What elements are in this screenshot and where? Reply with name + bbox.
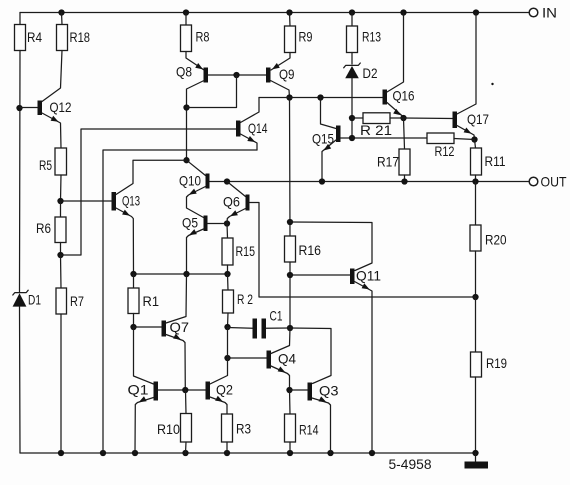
wire: Q2 collector [210,358,228,384]
wire: bus from Q14 collector to Q16 base [259,97,383,99]
svg-text:R5: R5 [39,157,52,173]
wire: node to R19 [475,297,477,352]
node junction ground rail end [472,450,478,456]
wire: Q14 collector riser [241,98,260,123]
svg-text:Q14: Q14 [248,120,268,136]
svg-text:R19: R19 [486,355,507,371]
wire: R6 bottom to node [60,243,62,256]
wire: Q8 collector down [187,81,205,161]
node junction Q8 collector [183,104,189,110]
node junction on IN rail above Q16 [400,9,406,15]
svg-text:Q17: Q17 [467,111,489,127]
transistor Q13 [112,192,141,211]
svg-text:R3: R3 [236,421,251,437]
wire: node to R15 [226,224,229,239]
wire: Q8 collector-base tie loop [187,75,237,108]
transistor Q3 [308,383,339,401]
node junction Q8 base/collector tie [233,72,239,78]
node junction ground rail at tail wire [100,450,106,456]
wire: R20 bottom to node [475,251,477,297]
wire: tail wire from Q14 emitter to ground rail [103,150,257,453]
svg-text:R9: R9 [299,29,313,45]
wire: Q11 base [290,274,350,276]
node junction R1 top [130,271,136,277]
node junction R6/R7/feedback [57,252,63,258]
svg-text:C1: C1 [270,308,283,324]
wire: Q6 emitter [227,209,246,224]
node junction ground rail at Q11 emitter [369,450,375,456]
node junction on IN rail above R13 [349,9,355,15]
wire: Q16 collector to IN rail [387,13,404,93]
wire: Q9 collector down [271,81,290,98]
wire: Q12 emitter to R5 [42,113,61,148]
resistor R2 [223,290,254,313]
svg-text:R 2: R 2 [237,291,253,307]
svg-text:R7: R7 [70,293,84,309]
transistor Q9 [266,66,295,83]
node junction on IN rail above R9 [286,9,292,15]
wire: Q7 collector up [166,274,187,323]
wire: Q15 base to D2 node [341,137,353,139]
node junction R20/R19/bias wire [472,294,478,300]
wire: Q4 emitter down [271,366,290,390]
wire: R14 bottom to ground rail [289,442,291,453]
svg-text:Q3: Q3 [319,383,339,399]
wire: Q2 emitter to R3 [210,396,227,414]
node junction Q9 collector / mirror bus [286,94,292,100]
terminal IN [529,5,557,21]
svg-text:R11: R11 [485,153,506,169]
wire: ground rail along bottom [20,452,476,454]
wire: node row Q13/Q7/R15 [134,273,228,275]
wire: R7 bottom to ground rail [60,314,62,453]
wire: R14 top [289,390,292,414]
terminal OUT [529,174,567,190]
node junction Q12 base on left rail [16,105,22,111]
wire: R10 top [185,390,188,414]
node junction ground rail at R10 [182,450,188,456]
resistor R17 [377,149,410,175]
node junction R1/Q7 base/Q1 collector [130,324,136,330]
resistor R19 [471,352,508,377]
wire: IN rail to R8 [185,13,187,26]
resistor R6 [36,217,66,243]
wire: R5 bottom to node [60,175,63,201]
svg-text:R16: R16 [299,242,322,258]
node junction R21/R17/Q17 base [400,115,406,121]
wire: R19 bottom to ground [475,377,477,453]
node junction on IN rail above R8 [183,9,189,15]
wire: R18 bottom to Q12 collector [42,51,62,102]
node junction ground rail at R3 [224,450,230,456]
wire: Q4 collector up to C1 node [271,328,290,354]
wire: R13 bottom to D2 [351,53,353,65]
node junction Q5 emitter/Q7 collector [183,271,189,277]
wire: Q1 collector from R1 node [134,327,154,384]
svg-text:D1: D1 [28,292,41,308]
wire: R17 bottom to output rail [404,175,406,182]
resistor R4 [15,25,43,51]
wire: R2 bottom to node [227,313,230,327]
capacitor C1 [253,308,283,339]
svg-text:Q9: Q9 [279,66,295,82]
wire: Q11 collector loop [290,222,372,271]
resistor R3 [222,414,252,442]
svg-text:Q6: Q6 [223,194,240,210]
wire: node to R2 [227,274,230,290]
wire: Q8/Q9 base wire [208,74,266,76]
node junction on IN rail above R18 [58,9,64,15]
svg-text:IN: IN [542,5,557,21]
wire: Q4 base [228,357,267,359]
resistor R1 [128,288,159,314]
resistor R16 [285,236,322,262]
wire: node to R11 [475,140,476,149]
wire: Q7 base [134,326,162,328]
svg-text:R15: R15 [236,243,256,259]
svg-text:Q5: Q5 [182,215,198,231]
svg-text:R 21: R 21 [360,122,392,138]
wire: Q5 emitter down to current node [187,229,204,274]
svg-text:Q1: Q1 [128,382,149,398]
wire: positive supply rail from R4 to IN [20,12,529,14]
resistor R9 [285,26,313,53]
node junction R2/C1/Q2 collector [224,324,230,330]
wire: feedback from R6 bottom up to Q14 base [61,129,237,255]
node junction D2/R21 [349,115,355,121]
wire: Q1/Q2 base wire [158,389,206,391]
transistor Q7 [162,319,190,337]
node junction Q5 base/Q6 emitter/R15 [224,220,230,226]
svg-text:R6: R6 [36,220,51,236]
node junction ground rail at Q1 emitter [132,450,138,456]
wire: Q13 collector up to Q10 [116,160,187,194]
transistor Q5 [182,215,208,232]
node junction Q15 collector on bus [317,94,323,100]
svg-text:Q2: Q2 [216,382,233,398]
svg-text:Q13: Q13 [122,193,140,209]
wire: Q6 collector [227,182,246,197]
node junction ground rail at Q3 emitter [327,450,333,456]
svg-text:Q16: Q16 [393,88,415,104]
node junction D2/Q15 base/R12 [349,135,355,141]
resistor R13 [347,26,382,53]
wire: IN rail to R9 [289,13,292,27]
transistor Q2 [206,382,234,400]
wire: R15 bottom to node [227,265,229,274]
transistor Q4 [267,351,297,369]
diode D1 (zener) [13,290,42,307]
wire: Q11 emitter to ground rail [355,282,373,454]
node junction ground rail at R14 [287,450,293,456]
wire: Q3 emitter to ground rail [312,396,331,453]
resistor R20 [470,225,507,251]
wire: node to R6 [60,201,62,217]
ground [465,453,489,469]
transistor Q1 [128,382,159,401]
wire: Q1 emitter to ground rail [135,396,154,453]
label 5-4958 [389,456,432,472]
wire: R3 bottom to ground rail [226,442,228,453]
node junction C1/Q4 collector/Q3 collector [287,325,293,331]
node junction R12/R11/Q17 emitter [471,136,477,142]
node junction Q13 collector / Q10 [183,157,189,163]
wire: Q10 collector [187,160,206,175]
resistor R7 [56,288,84,314]
node speck artifact [491,83,493,85]
transistor Q17 [453,111,490,128]
node junction base wire / Q7 emitter / R10 [182,387,188,393]
wire: Q15 collector riser [321,98,337,129]
wire: Q10 emitter to Q5 collector [187,187,206,218]
node junction output rail at R17 [401,178,407,184]
node junction output rail at Q15 emitter [319,178,325,184]
svg-text:OUT: OUT [541,174,567,190]
svg-text:Q4: Q4 [278,351,296,367]
wire: R12 feed wire [352,137,427,139]
node junction R5/R6/Q13 base [57,198,63,204]
svg-text:Q11: Q11 [356,268,381,284]
svg-text:Q10: Q10 [179,173,201,189]
svg-text:R8: R8 [196,29,210,45]
svg-text:R18: R18 [70,29,91,45]
svg-text:R14: R14 [299,422,319,438]
resistor R18 [57,25,91,51]
transistor Q10 [179,173,210,189]
wire: Q9 collector node down to R16 [289,98,292,237]
wire: R10 bottom to ground rail [185,442,188,453]
wire: Q5 base [208,223,228,225]
resistor R21 [352,113,404,138]
wire: C1 right lead [266,327,290,329]
wire: R1 bottom to node [133,314,135,328]
wire: D2 anode down to R21 node [351,78,353,138]
svg-text:Q8: Q8 [176,64,192,80]
resistor R5 [39,148,67,175]
svg-text:R13: R13 [362,29,381,45]
wire: R21 node to R17 [404,118,405,149]
svg-text:Q12: Q12 [50,99,72,115]
wire: C1 node over to Q3 collector [290,328,331,384]
wire: Q17 base wire [404,117,453,120]
wire: bias wire to Q6 base [250,203,476,298]
wire: Q17 emitter to R11 node [457,126,475,140]
wire: output rail to R20 [475,182,477,226]
svg-text:R4: R4 [27,29,42,45]
transistor Q15 [312,126,341,147]
node junction on IN rail above Q17 [473,9,479,15]
svg-text:D2: D2 [363,65,378,81]
resistor R15 [222,238,255,265]
wire: Q13 emitter down [116,208,134,274]
wire: vertical between R2 node and Q4 base node [227,327,229,358]
wire: left rail from top rail corner down to R4 [19,13,21,25]
wire: Q12 base [20,107,38,109]
node junction R16/Q11 base [287,272,293,278]
node junction Q4 base/Q2 collector [224,355,230,361]
wire: Q7 emitter down [166,334,185,390]
wire: R11 bottom to output rail [475,175,477,182]
wire: Q17 collector to IN rail [457,13,476,115]
wire: node to R1 [133,274,135,288]
wire: Q14 emitter to tail [241,134,258,150]
node junction Q4 emitter/Q3 base/R14 [286,387,292,393]
transistor Q12 [38,99,72,115]
transistor Q8 [176,64,208,83]
wire: R9 bottom to Q9 emitter [271,53,290,71]
node junction output rail at Q6 [224,178,230,184]
wire: Q13 base [61,200,112,202]
wire: output rail [210,181,529,183]
transistor Q14 [236,120,268,137]
svg-text:R1: R1 [143,293,160,309]
resistor R12 [427,133,475,159]
resistor R11 [471,148,506,175]
wire: Q3 base [290,389,308,391]
resistor R14 [285,414,319,442]
transistor Q11 [350,268,381,285]
wire: left rail R4 bottom to D1 [19,51,22,293]
resistor R8 [181,25,210,52]
node junction ground rail at R7 [58,450,64,456]
wire: IN rail to R13 [351,13,353,27]
node junction R16 top / Q11 collector [287,219,293,225]
wire: node to R7 [60,255,63,288]
wire: R8 bottom to Q8 emitter [186,52,204,71]
svg-text:R17: R17 [377,154,399,170]
wire: C1 left lead [228,327,253,330]
svg-text:R10: R10 [157,421,180,437]
wire: left rail D1 to bottom corner [19,307,22,453]
diode D2 (zener) [344,63,378,81]
wire: IN rail to R18 [61,13,64,25]
resistor R10 [157,414,192,443]
node junction output rail at R11/R20 [472,178,478,184]
transistor Q16 [383,88,415,105]
svg-text:R20: R20 [485,232,507,248]
svg-text:5-4958: 5-4958 [389,456,432,472]
svg-text:R12: R12 [435,143,455,159]
wire: Q16 emitter to R21 node [387,103,404,118]
node junction R15/R2 [224,271,230,277]
transistor Q6 [223,194,250,211]
wire: R16 bottom to C1 node [289,262,291,328]
wire: Q15 emitter to output rail [322,140,336,182]
